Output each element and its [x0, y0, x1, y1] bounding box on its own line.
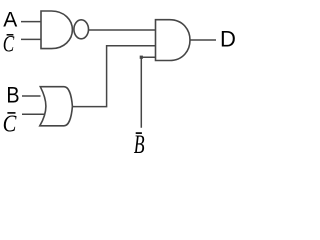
svg-text:B: B	[6, 84, 19, 108]
input label B-bar	[134, 130, 145, 159]
svg-text:C: C	[3, 110, 18, 137]
svg-text:A: A	[3, 9, 17, 32]
wire AND output to D	[190, 39, 216, 41]
wire C-bar input (bottom)	[22, 113, 44, 115]
wire B input	[22, 95, 41, 97]
NAND gate U1 (AND body)	[41, 11, 72, 49]
wire A input	[21, 21, 42, 23]
AND gate U2	[156, 20, 191, 61]
input label C-bar (bottom)	[3, 110, 18, 137]
OR gate U3	[40, 87, 73, 126]
wire OR output riser to AND middle input	[72, 46, 155, 107]
input label C-bar (top)	[3, 32, 15, 57]
wire C-bar input (top)	[21, 38, 42, 40]
svg-text:D: D	[220, 26, 236, 51]
junction dot at B-bar riser corner	[140, 56, 143, 59]
svg-text:C: C	[3, 32, 15, 57]
wire B-bar riser to AND bottom input	[141, 57, 155, 128]
NAND output bubble	[74, 20, 89, 39]
wire NAND output to AND top input	[89, 29, 156, 31]
